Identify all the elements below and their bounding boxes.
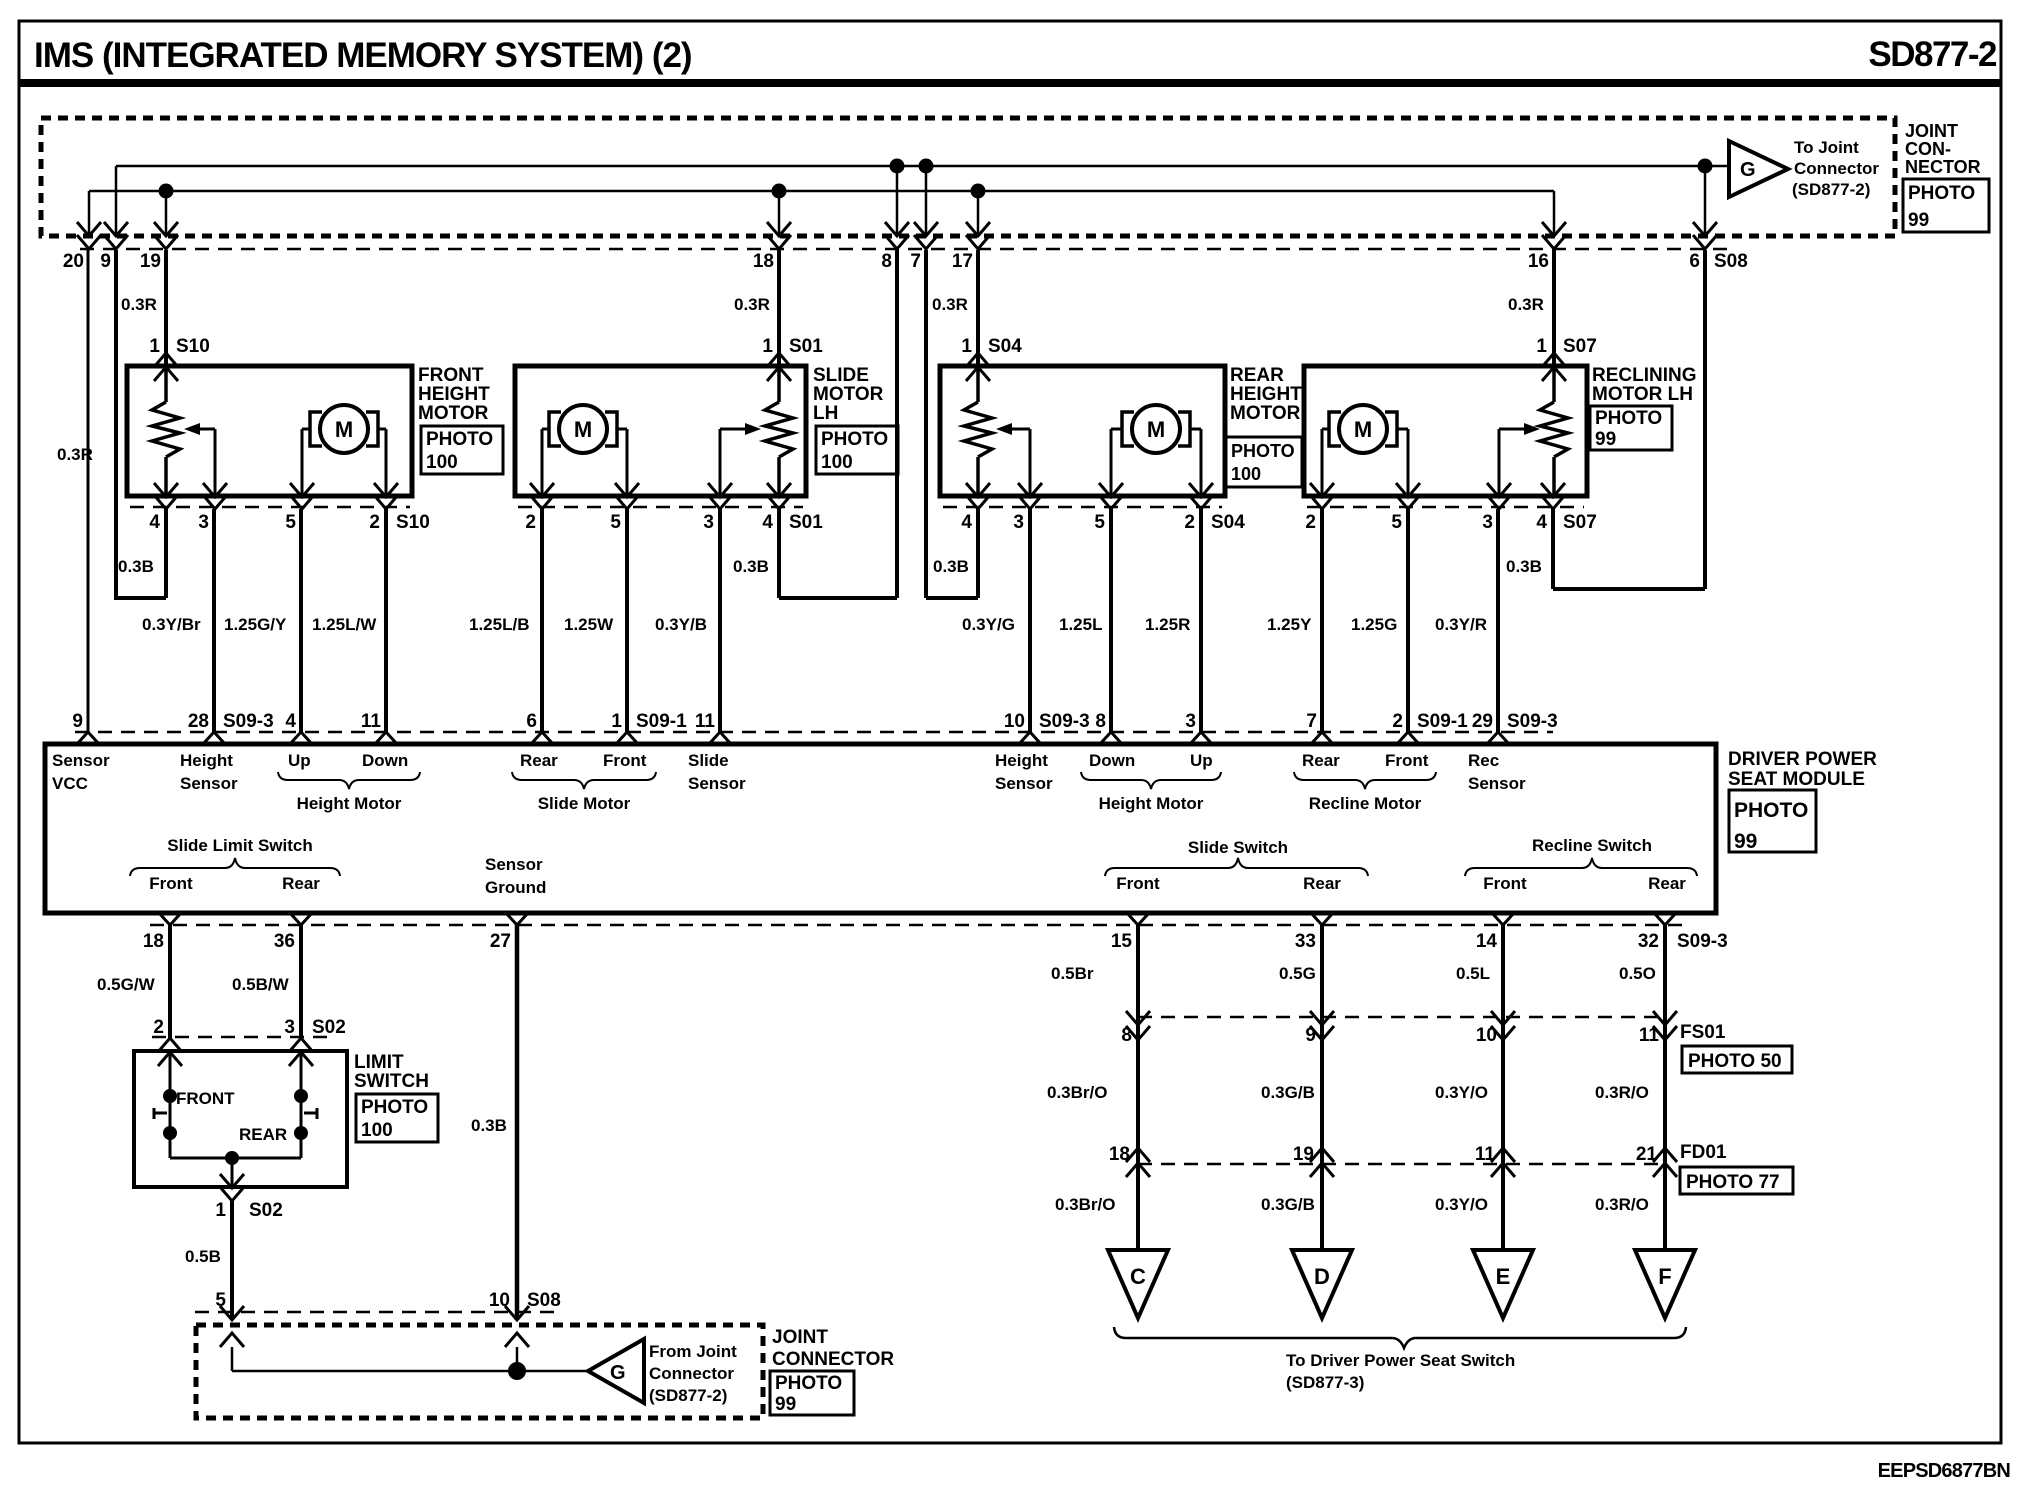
connector S08 pin 16: [1542, 222, 1566, 236]
node C (to driver power seat switch): [1108, 1250, 1168, 1318]
connector S09 module bottom pin 15: [1127, 913, 1149, 925]
svg-text:Slide: Slide: [688, 751, 729, 770]
wire 0.3Y/Br (x=214): [212, 509, 216, 732]
svg-text:SWITCH: SWITCH: [354, 1071, 429, 1092]
svg-text:0.3Br/O: 0.3Br/O: [1055, 1195, 1115, 1214]
svg-text:11: 11: [695, 711, 716, 732]
svg-text:3: 3: [198, 512, 209, 533]
svg-text:PHOTO 50: PHOTO 50: [1688, 1051, 1782, 1072]
S02 dashed line: [152, 1036, 332, 1039]
connector S09 module bottom pin 32: [1654, 913, 1676, 925]
svg-text:9: 9: [72, 711, 83, 732]
svg-text:Sensor: Sensor: [180, 774, 238, 793]
wire drop pin6: [1704, 166, 1707, 237]
svg-text:2: 2: [1305, 512, 1316, 533]
connector S09 module top pin 3: [1190, 732, 1212, 744]
connector FS01 pin 10: [1491, 1011, 1515, 1025]
svg-text:0.3G/B: 0.3G/B: [1261, 1195, 1315, 1214]
junction dot pin18: [772, 184, 787, 199]
svg-text:MOTOR LH: MOTOR LH: [1592, 384, 1693, 405]
svg-text:0.5B/W: 0.5B/W: [232, 975, 290, 994]
module bottom dashed line S09: [150, 924, 1690, 927]
joint connector photo box: [1903, 179, 1989, 232]
svg-text:0.3Y/O: 0.3Y/O: [1435, 1195, 1488, 1214]
svg-text:FS01: FS01: [1680, 1022, 1726, 1043]
svg-text:PHOTO: PHOTO: [361, 1097, 428, 1118]
svg-text:S04: S04: [1211, 512, 1245, 533]
wire 0.3R (pin18 to S01 pin1): [777, 250, 781, 366]
svg-text:Sensor: Sensor: [485, 855, 543, 874]
svg-text:2: 2: [369, 512, 380, 533]
connector S04 pin 4: [966, 483, 990, 497]
node D (to driver power seat switch): [1292, 1250, 1352, 1318]
motor M S01: [559, 405, 607, 453]
svg-text:Sensor: Sensor: [1468, 774, 1526, 793]
FD01 photo box: [1680, 1167, 1793, 1194]
svg-text:S07: S07: [1563, 336, 1597, 357]
svg-text:PHOTO 77: PHOTO 77: [1686, 1172, 1780, 1193]
svg-text:REAR: REAR: [1230, 365, 1284, 386]
svg-text:SEAT MODULE: SEAT MODULE: [1728, 769, 1865, 790]
wire 1.25L/W (x=386): [384, 509, 388, 732]
svg-text:0.3R: 0.3R: [734, 295, 770, 314]
svg-text:JOINT: JOINT: [1905, 121, 1958, 141]
svg-text:19: 19: [140, 251, 161, 272]
connector S09 module top pin 6: [531, 732, 553, 744]
connector S04 pin 5: [1099, 483, 1123, 497]
svg-text:PHOTO: PHOTO: [1734, 799, 1808, 822]
wire 0.3Y/G (x=1030): [1028, 509, 1032, 732]
module photo box: [1729, 790, 1816, 852]
svg-text:(SD877-2): (SD877-2): [649, 1386, 727, 1405]
svg-text:PHOTO: PHOTO: [1595, 408, 1662, 429]
FD01 dashed line: [1138, 1163, 1665, 1166]
svg-text:3: 3: [1482, 512, 1493, 533]
svg-text:0.3B: 0.3B: [1506, 557, 1542, 576]
svg-text:4: 4: [1536, 512, 1547, 533]
svg-text:10: 10: [1476, 1025, 1497, 1046]
joint connector dashed box (top): [41, 118, 1895, 236]
connector S01 pin 2: [530, 483, 554, 497]
svg-text:S08: S08: [1714, 251, 1748, 272]
svg-text:6: 6: [1689, 251, 1700, 272]
svg-text:8: 8: [1095, 711, 1106, 732]
wire 0.5B/W: [299, 925, 303, 1038]
connector S04 pin1 chevrons: [966, 353, 990, 367]
connector S08 pin 10: [505, 1306, 529, 1320]
svg-text:CONNECTOR: CONNECTOR: [772, 1349, 894, 1370]
reclining motor photo box: [1590, 406, 1672, 450]
brace under CDEF: [1114, 1327, 1686, 1348]
svg-text:3: 3: [284, 1017, 295, 1038]
wiper arrow S04: [996, 423, 1012, 435]
svg-text:PHOTO: PHOTO: [775, 1373, 842, 1394]
wire 0.5B: [230, 1201, 234, 1320]
svg-text:Recline Switch: Recline Switch: [1532, 836, 1652, 855]
svg-text:5: 5: [610, 512, 621, 533]
svg-text:5: 5: [285, 512, 296, 533]
connector S10 pin 2: [374, 483, 398, 497]
front height motor photo box: [421, 426, 503, 474]
svg-text:3: 3: [1185, 711, 1196, 732]
wire 0.3B sensor ground: [515, 925, 520, 1320]
svg-text:1.25R: 1.25R: [1145, 615, 1190, 634]
brace recline switch: [1465, 858, 1697, 876]
svg-text:(SD877-2): (SD877-2): [1792, 180, 1870, 199]
svg-text:0.5O: 0.5O: [1619, 964, 1656, 983]
svg-text:2: 2: [1184, 512, 1195, 533]
svg-text:Rear: Rear: [520, 751, 558, 770]
svg-text:100: 100: [426, 452, 458, 473]
resistor S01 slide sensor: [777, 367, 781, 402]
reclining motor lh box S07: [1304, 366, 1587, 496]
svg-text:HEIGHT: HEIGHT: [418, 384, 490, 405]
svg-text:10: 10: [489, 1290, 510, 1311]
svg-text:S04: S04: [988, 336, 1022, 357]
svg-text:Rear: Rear: [1302, 751, 1340, 770]
svg-text:1.25Y: 1.25Y: [1267, 615, 1312, 634]
svg-text:0.3R/O: 0.3R/O: [1595, 1195, 1649, 1214]
svg-text:1.25L/B: 1.25L/B: [469, 615, 529, 634]
connector S09 module top pin 9: [77, 732, 99, 744]
svg-text:5: 5: [1391, 512, 1402, 533]
svg-text:Height Motor: Height Motor: [1099, 794, 1204, 813]
svg-text:14: 14: [1476, 931, 1498, 952]
svg-text:9: 9: [100, 251, 111, 272]
connector S01 pin1 chevrons: [767, 353, 791, 367]
limit switch common wire: [170, 1157, 301, 1160]
svg-text:(SD877-3): (SD877-3): [1286, 1373, 1364, 1392]
joint connector photo box bottom: [770, 1371, 854, 1415]
svg-text:0.3B: 0.3B: [118, 557, 154, 576]
svg-text:1: 1: [611, 711, 622, 732]
junction dot pin7: [919, 159, 934, 174]
svg-text:0.3R: 0.3R: [57, 445, 93, 464]
svg-text:0.3R: 0.3R: [121, 295, 157, 314]
connector S10 pin 3: [203, 483, 227, 497]
wire 1.25G/Y (x=301): [299, 509, 303, 732]
svg-text:2: 2: [525, 512, 536, 533]
driver power seat module box: [45, 744, 1716, 913]
wire drop pin19: [165, 191, 168, 237]
svg-text:S09-1: S09-1: [636, 711, 687, 732]
connector S02 pin 2: [158, 1038, 182, 1052]
bottom joint wire: [232, 1370, 588, 1373]
node F (to driver power seat switch): [1635, 1250, 1695, 1318]
slide motor photo box: [816, 426, 898, 474]
motor wires S07: [1322, 428, 1329, 431]
svg-text:3: 3: [703, 512, 714, 533]
wire 0.5G: [1320, 925, 1324, 1250]
svg-text:100: 100: [1231, 464, 1261, 484]
svg-text:18: 18: [753, 251, 774, 272]
limit switch photo box: [356, 1094, 438, 1142]
resistor S07 rec sensor: [1552, 367, 1556, 402]
resistor S10 height sensor: [164, 367, 168, 402]
svg-text:S10: S10: [396, 512, 430, 533]
connector S09 module top pin 2: [1397, 732, 1419, 744]
connector S10 pin1 chevrons: [154, 353, 178, 367]
svg-text:F: F: [1658, 1264, 1671, 1289]
connector S07 pin 4: [1541, 483, 1565, 497]
junction dot pin17: [971, 184, 986, 199]
svg-text:7: 7: [1306, 711, 1317, 732]
svg-text:PHOTO: PHOTO: [426, 429, 493, 450]
svg-text:5: 5: [215, 1290, 226, 1311]
connector S08 pin 9: [104, 222, 128, 236]
connector S07 pin 3: [1487, 483, 1511, 497]
module top dashed line S09: [75, 731, 1553, 734]
wire 0.3R (pin17 to S04 pin1): [976, 250, 980, 366]
svg-text:29: 29: [1472, 711, 1493, 732]
svg-text:Connector: Connector: [1794, 159, 1879, 178]
connector S02 pin 3: [289, 1038, 313, 1052]
G triangle (to joint connector): [1729, 141, 1788, 197]
svg-text:9: 9: [1305, 1025, 1316, 1046]
wire 0.5L: [1501, 925, 1505, 1250]
svg-text:2: 2: [1392, 711, 1403, 732]
svg-text:FRONT: FRONT: [176, 1089, 235, 1108]
svg-text:11: 11: [361, 711, 382, 732]
svg-text:0.3B: 0.3B: [933, 557, 969, 576]
svg-text:1.25W: 1.25W: [564, 615, 614, 634]
connector FD01 pin 18: [1126, 1148, 1150, 1162]
wire 0.3R (pin16 to S07 pin1): [1552, 250, 1556, 366]
svg-text:S01: S01: [789, 512, 823, 533]
svg-text:MOTOR: MOTOR: [1230, 403, 1301, 424]
svg-text:Sensor: Sensor: [688, 774, 746, 793]
svg-text:M: M: [335, 417, 353, 442]
svg-text:0.3Y/Br: 0.3Y/Br: [142, 615, 201, 634]
node E (to driver power seat switch): [1473, 1250, 1533, 1318]
svg-text:Height: Height: [995, 751, 1048, 770]
svg-text:CON-: CON-: [1905, 139, 1951, 159]
svg-text:Rear: Rear: [1648, 874, 1686, 893]
brace slide motor: [512, 772, 656, 789]
svg-text:Ground: Ground: [485, 878, 546, 897]
svg-text:VCC: VCC: [52, 774, 88, 793]
svg-text:99: 99: [775, 1394, 796, 1415]
svg-text:Recline Motor: Recline Motor: [1309, 794, 1422, 813]
svg-text:4: 4: [149, 512, 160, 533]
svg-text:1: 1: [762, 336, 773, 357]
connector S09 module bottom pin 27: [506, 913, 528, 925]
S01 bottom dashed: [518, 506, 803, 509]
S04 bottom dashed: [943, 506, 1222, 509]
FS01 photo box: [1682, 1046, 1792, 1073]
svg-text:100: 100: [821, 452, 853, 473]
svg-text:Slide Limit Switch: Slide Limit Switch: [167, 836, 312, 855]
svg-text:3: 3: [1013, 512, 1024, 533]
svg-text:M: M: [574, 417, 592, 442]
svg-text:LIMIT: LIMIT: [354, 1052, 404, 1073]
svg-text:0.3Y/G: 0.3Y/G: [962, 615, 1015, 634]
svg-text:Front: Front: [1483, 874, 1527, 893]
junction dot G: [1698, 159, 1713, 174]
connector S09 module top pin 1: [616, 732, 638, 744]
wire 0.5G/W: [168, 925, 172, 1038]
svg-text:PHOTO: PHOTO: [1231, 441, 1295, 461]
wire 1.25L (x=1111): [1109, 509, 1113, 732]
svg-text:HEIGHT: HEIGHT: [1230, 384, 1302, 405]
svg-text:From Joint: From Joint: [649, 1342, 737, 1361]
slide motor lh box S01: [515, 366, 806, 496]
svg-text:0.3B: 0.3B: [733, 557, 769, 576]
svg-text:S08: S08: [527, 1290, 561, 1311]
brace height motor R: [1081, 772, 1221, 789]
connector S07 pin 5: [1396, 483, 1420, 497]
connector S07 pin1 chevrons: [1542, 353, 1566, 367]
connector S08 pin 5: [220, 1306, 244, 1320]
svg-text:D: D: [1314, 1264, 1330, 1289]
junction dot pin8: [890, 159, 905, 174]
connector S08 pin 19: [154, 222, 178, 236]
S10 bottom dashed: [130, 506, 410, 509]
svg-text:C: C: [1130, 1264, 1146, 1289]
connector S09 module top pin 11: [709, 732, 731, 744]
wire 0.3Y/B (x=720): [718, 509, 722, 732]
svg-text:S09-3: S09-3: [223, 711, 274, 732]
motor wires S01: [542, 428, 549, 431]
svg-text:SD877-2: SD877-2: [1868, 35, 1997, 74]
svg-text:0.5L: 0.5L: [1456, 964, 1490, 983]
wire drop pin9: [115, 166, 118, 237]
svg-text:11: 11: [1475, 1144, 1496, 1165]
svg-text:0.3R: 0.3R: [1508, 295, 1544, 314]
svg-text:99: 99: [1908, 210, 1929, 231]
svg-text:0.5B: 0.5B: [185, 1247, 221, 1266]
svg-text:0.3B: 0.3B: [471, 1116, 507, 1135]
connector FS01 pin 9: [1310, 1011, 1334, 1025]
connector FS01 pin 11: [1653, 1011, 1677, 1025]
svg-text:27: 27: [490, 931, 511, 952]
svg-text:Front: Front: [1116, 874, 1160, 893]
svg-text:0.3G/B: 0.3G/B: [1261, 1083, 1315, 1102]
svg-text:Slide Switch: Slide Switch: [1188, 838, 1288, 857]
svg-text:Connector: Connector: [649, 1364, 734, 1383]
wire 0.3Y/R (x=1498): [1496, 509, 1500, 732]
wire 0.3R (pin19 to S10 pin1): [164, 250, 168, 366]
svg-text:Rec: Rec: [1468, 751, 1499, 770]
svg-text:4: 4: [961, 512, 972, 533]
connector FD01 pin 11: [1491, 1148, 1515, 1162]
connector S09 module bottom pin 36: [290, 913, 312, 925]
svg-text:S02: S02: [312, 1017, 346, 1038]
svg-text:G: G: [610, 1362, 626, 1384]
svg-text:M: M: [1354, 417, 1372, 442]
connector S01 pin 4: [767, 483, 791, 497]
brace slide limit switch: [130, 858, 340, 876]
svg-text:1: 1: [215, 1200, 226, 1221]
svg-text:Height: Height: [180, 751, 233, 770]
svg-text:PHOTO: PHOTO: [1908, 183, 1975, 204]
svg-text:Down: Down: [1089, 751, 1135, 770]
svg-text:Up: Up: [288, 751, 311, 770]
wire 0.3B (S08 pin6 to S07 pin4): [1703, 250, 1707, 589]
wire 1.25R (x=1201): [1199, 509, 1203, 732]
wire 1.25Y (x=1322): [1320, 509, 1324, 732]
G triangle (from joint connector): [588, 1339, 644, 1403]
wire 1.25G (x=1408): [1406, 509, 1410, 732]
connector FD01 pin 19: [1310, 1148, 1334, 1162]
svg-text:6: 6: [526, 711, 537, 732]
svg-text:5: 5: [1094, 512, 1105, 533]
svg-text:7: 7: [910, 251, 921, 272]
svg-text:2: 2: [153, 1017, 164, 1038]
resistor S04 height sensor: [976, 367, 980, 402]
svg-text:1: 1: [961, 336, 972, 357]
bottom joint junction dot: [508, 1362, 526, 1380]
svg-text:Front: Front: [149, 874, 193, 893]
connector S08 pin 20: [77, 222, 101, 236]
wire 1.25W (x=627): [625, 509, 629, 732]
svg-text:0.3Y/O: 0.3Y/O: [1435, 1083, 1488, 1102]
svg-text:28: 28: [188, 711, 209, 732]
wire drop pin18: [778, 191, 781, 237]
svg-text:MOTOR: MOTOR: [813, 384, 884, 405]
wire 0.5Br: [1136, 925, 1140, 1250]
front height motor box S10: [127, 366, 412, 496]
svg-text:Sensor: Sensor: [995, 774, 1053, 793]
svg-text:18: 18: [143, 931, 164, 952]
connector S08 pin 18: [767, 222, 791, 236]
svg-text:S07: S07: [1563, 512, 1597, 533]
svg-text:G: G: [1740, 159, 1756, 181]
svg-text:E: E: [1496, 1264, 1511, 1289]
connector S04 pin 2: [1189, 483, 1213, 497]
svg-text:1.25G/Y: 1.25G/Y: [224, 615, 287, 634]
brace recline motor: [1294, 772, 1436, 789]
svg-text:36: 36: [274, 931, 295, 952]
svg-text:MOTOR: MOTOR: [418, 403, 489, 424]
svg-text:33: 33: [1295, 931, 1316, 952]
connector S02 pin 1: [220, 1174, 244, 1188]
joint connector dashed box (bottom): [196, 1325, 763, 1418]
svg-text:10: 10: [1004, 711, 1025, 732]
svg-text:0.5G/W: 0.5G/W: [97, 975, 156, 994]
connector S09 module top pin 4: [290, 732, 312, 744]
svg-text:4: 4: [762, 512, 773, 533]
svg-text:PHOTO: PHOTO: [821, 429, 888, 450]
svg-text:99: 99: [1734, 830, 1757, 853]
connector S09 module top pin 28: [203, 732, 225, 744]
wire 1.25L/B (x=542): [540, 509, 544, 732]
motor wires S10: [302, 428, 310, 431]
pin5 entry chevron: [220, 1333, 244, 1347]
svg-text:0.3R: 0.3R: [932, 295, 968, 314]
svg-text:20: 20: [63, 251, 84, 272]
wire bus1 (to pins 9,8,7,6): [116, 165, 1729, 168]
svg-text:Slide Motor: Slide Motor: [538, 794, 631, 813]
svg-text:M: M: [1147, 417, 1165, 442]
wire drop pin20: [88, 191, 91, 237]
wire drop pin16: [1553, 191, 1556, 237]
wire 0.3R sensor vcc (pin20 to module pin9): [87, 250, 90, 732]
connector S09 module top pin 10: [1019, 732, 1041, 744]
limit switch rear contact: [300, 1053, 303, 1158]
svg-text:S09-3: S09-3: [1507, 711, 1558, 732]
svg-text:Front: Front: [1385, 751, 1429, 770]
svg-text:8: 8: [881, 251, 892, 272]
rear height motor photo box: [1226, 437, 1302, 487]
svg-text:0.5G: 0.5G: [1279, 964, 1316, 983]
svg-text:NECTOR: NECTOR: [1905, 157, 1981, 177]
svg-text:EEPSD6877BN: EEPSD6877BN: [1878, 1460, 2011, 1482]
svg-text:S09-3: S09-3: [1677, 931, 1728, 952]
connector S09 module bottom pin 18: [159, 913, 181, 925]
svg-text:21: 21: [1636, 1144, 1658, 1165]
S08 row thin dashed line: [80, 248, 1730, 251]
